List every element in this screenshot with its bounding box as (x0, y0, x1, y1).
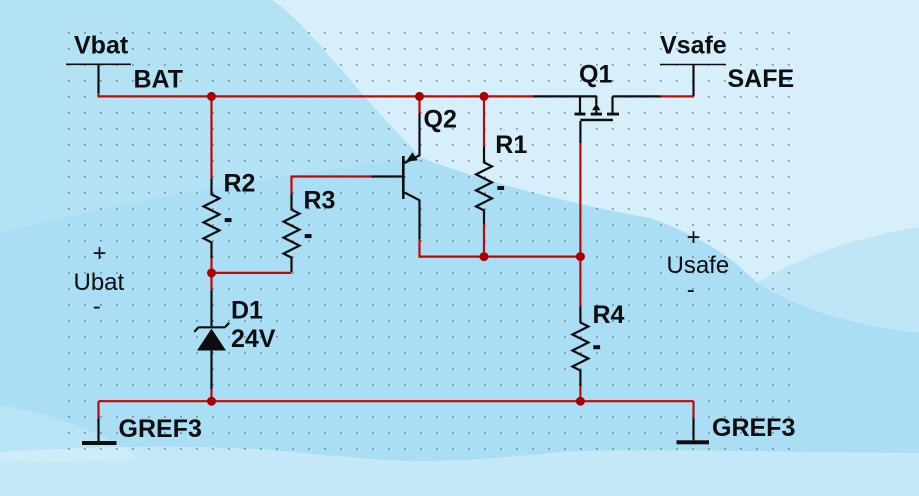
resistor R3 (284, 194, 300, 272)
value dash R1 (497, 186, 504, 190)
junction node R2/R3/D1 (207, 268, 216, 277)
wire D1 bottom (210, 389, 212, 401)
svg-text:-: - (93, 293, 101, 320)
wire Q2 collector to mid rail (420, 239, 581, 257)
wire R4 bottom (579, 386, 581, 401)
background wave big top-right (272, 0, 919, 283)
svg-text:R4: R4 (593, 301, 625, 329)
svg-text:D1: D1 (231, 297, 263, 325)
svg-text:Vbat: Vbat (74, 32, 129, 60)
svg-text:24V: 24V (231, 325, 276, 353)
background wave faint top-left lightening (0, 0, 422, 233)
wire bottom rail (99, 400, 694, 402)
background wave bottom-left wedge (0, 405, 140, 461)
wire R4 branch (579, 257, 581, 307)
junction node BAT/R2 (207, 92, 216, 101)
wire right ground stem (692, 401, 694, 418)
resistor R2 (204, 178, 220, 258)
resistor R4 (572, 307, 588, 387)
wire R1 bottom (483, 224, 485, 257)
svg-text:+: + (687, 224, 701, 251)
wire Q2 emitter (418, 96, 420, 113)
svg-text:GREF3: GREF3 (712, 414, 795, 442)
svg-text:Q1: Q1 (579, 60, 612, 88)
transistor Q2 (PNP) (372, 114, 420, 240)
transistor Q1 (P-MOSFET) (533, 96, 661, 143)
value dash R3 (305, 234, 312, 238)
wire left ground stem (97, 401, 99, 418)
junction node bottom/R4 (576, 397, 585, 406)
wire R3 bottom to node (212, 272, 292, 274)
junction node bottom/D1 (207, 397, 216, 406)
junction node BAT/R1 (480, 92, 489, 101)
svg-text:GREF3: GREF3 (119, 415, 202, 443)
svg-text:SAFE: SAFE (728, 65, 795, 93)
junction node mid/R4 (576, 252, 585, 261)
svg-text:R3: R3 (304, 187, 336, 215)
diode D1 (zener) (194, 290, 229, 389)
value dash R4 (593, 345, 600, 349)
port VBAT symbol (66, 64, 131, 93)
svg-text:Q2: Q2 (424, 105, 457, 133)
junction node BAT/Q2 (415, 92, 424, 101)
wire Q1 gate to mid rail (579, 143, 581, 257)
svg-text:Vsafe: Vsafe (660, 31, 727, 59)
svg-text:R1: R1 (495, 131, 527, 159)
wire R2 branch from BAT rail (210, 96, 212, 178)
resistor R1 (476, 146, 492, 224)
port VSAFE symbol (660, 65, 726, 97)
ground GREF3 right (692, 418, 694, 440)
wire BAT top rail (99, 93, 534, 96)
wire SAFE segment (661, 95, 694, 97)
ground GREF3 left (97, 418, 99, 441)
wire R1 branch (483, 96, 485, 146)
svg-text:Usafe: Usafe (667, 252, 730, 279)
background wave bottom strip (0, 447, 919, 496)
svg-text:-: - (687, 277, 695, 304)
svg-text:BAT: BAT (134, 66, 184, 94)
wire R2 bottom to node (210, 258, 212, 273)
value dash R2 (225, 218, 232, 222)
svg-text:R2: R2 (224, 170, 256, 198)
wire D1 top (210, 273, 212, 291)
svg-text:+: + (93, 240, 107, 267)
background wave right wedge (757, 227, 919, 333)
wire R3 top and to Q2 base (292, 177, 372, 194)
junction node mid/R1 (480, 252, 489, 261)
